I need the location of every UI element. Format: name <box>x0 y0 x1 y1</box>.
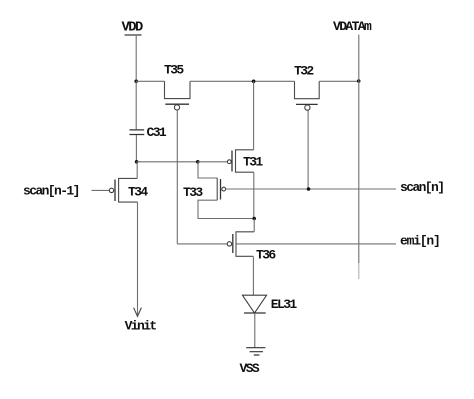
transistor T31 gate bubble <box>227 160 231 164</box>
capacitor C31 top lead <box>135 81 137 129</box>
svg-text:VSS: VSS <box>240 361 260 376</box>
wire top rail left segment <box>136 80 164 82</box>
VDD power bar <box>125 34 142 36</box>
svg-text:emi[n]: emi[n] <box>400 233 440 248</box>
wire emi[n] line right segment <box>236 243 396 245</box>
transistor T32 channel <box>295 81 320 98</box>
transistor T34 channel <box>119 178 138 202</box>
wire T31 drain up to node B <box>253 81 255 150</box>
wire VDATAm faint tail <box>358 263 360 279</box>
svg-text:scan[n-1]: scan[n-1] <box>23 183 79 198</box>
wire top rail middle segment <box>190 80 295 82</box>
svg-text:VDD: VDD <box>122 20 144 35</box>
diode EL31 cathode bar <box>244 312 266 314</box>
wire T36 source down to EL31 <box>252 256 254 295</box>
svg-text:T35: T35 <box>164 62 184 77</box>
wire T32 gate down to scan line <box>307 110 309 189</box>
transistor T32 gate bubble <box>305 105 310 110</box>
transistor T36 channel <box>236 232 254 256</box>
svg-text:T36: T36 <box>256 248 276 263</box>
wire top rail right segment <box>319 80 359 82</box>
diode EL31 <box>242 295 266 313</box>
wire EL31 to ground <box>254 313 256 348</box>
svg-text:scan[n]: scan[n] <box>400 180 443 195</box>
wire T34 source down to Vinit <box>137 202 139 316</box>
wire T34 gate lead from scan[n-1] <box>92 189 110 191</box>
svg-text:VDATAm: VDATAm <box>333 19 372 34</box>
wire T31 source down to node D <box>253 172 255 218</box>
wire scan[n] line <box>226 188 396 190</box>
transistor T33 gate bubble <box>222 187 226 191</box>
arrowhead Vinit <box>134 308 142 317</box>
wire T35 gate down to emi line <box>176 110 178 244</box>
transistor T34 gate bar <box>114 180 116 202</box>
wire emi[n] line left segment <box>177 243 227 245</box>
node F (top rail / VDATAm junction) <box>357 79 361 83</box>
svg-text:T34: T34 <box>128 185 148 200</box>
svg-text:T32: T32 <box>294 63 314 78</box>
wire VDD vertical <box>135 35 137 81</box>
transistor T35 channel <box>165 81 191 98</box>
node D (T31/T33/T36 junction) <box>252 217 256 221</box>
wire T33 source down and right to node D <box>198 200 254 218</box>
node G (T32 gate on scan line) <box>307 187 311 191</box>
transistor T33 channel <box>216 178 218 201</box>
svg-text:C31: C31 <box>147 125 167 140</box>
wire VDATAm vertical <box>358 35 360 263</box>
svg-text:T33: T33 <box>183 185 203 200</box>
transistor T35 gate bar <box>165 103 189 105</box>
transistor T36 gate bubble <box>227 242 231 246</box>
node E (C31 / T34 / T31-gate junction) <box>135 160 139 164</box>
capacitor C31 bottom lead <box>135 135 137 162</box>
transistor T36 gate bar <box>232 234 234 253</box>
transistor T32 gate bar <box>296 103 318 105</box>
wire gate net C to T31 bubble <box>198 161 228 163</box>
transistor T34 gate bubble <box>109 188 113 192</box>
svg-text:Vinit: Vinit <box>125 318 157 333</box>
transistor T35 gate bubble <box>174 105 179 110</box>
node B (T31 drain on top rail) <box>252 80 256 84</box>
wire T36 drain up to node D <box>253 219 255 232</box>
capacitor C31 plates <box>130 130 145 135</box>
wire gate net E to C <box>137 161 198 163</box>
svg-text:T31: T31 <box>243 155 263 170</box>
wire T34 drain up to node E <box>136 162 138 179</box>
ground VSS symbol <box>246 348 265 355</box>
node C (T33 drain on gate net) <box>196 160 200 164</box>
transistor T33 gate bar <box>220 179 222 200</box>
transistor T31 gate bar <box>231 151 233 172</box>
transistor T33 drain up to node C <box>198 162 217 178</box>
node A (VDD / top rail junction) <box>134 80 138 84</box>
transistor T31 channel <box>236 150 254 172</box>
svg-text:EL31: EL31 <box>271 297 298 312</box>
